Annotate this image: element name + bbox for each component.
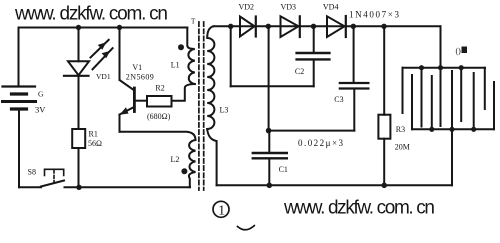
- diode VD4 cathode bar: [345, 16, 347, 37]
- grid finger down 4: [460, 68, 462, 121]
- svg-text:C3: C3: [334, 95, 343, 104]
- squiggle mark: [238, 226, 255, 230]
- node junction LED-top: [76, 25, 81, 30]
- circled figure number 1: [213, 201, 229, 217]
- grid bottom bus dot 1: [429, 127, 434, 132]
- resistor R3 bottom lead: [383, 139, 385, 186]
- svg-text:S8: S8: [28, 168, 36, 177]
- switch S8 blade: [41, 181, 64, 187]
- svg-text:T: T: [191, 18, 196, 26]
- wire base lead: [136, 100, 147, 102]
- wire emitter drop: [119, 115, 121, 132]
- switch S8 plunger dashed: [53, 170, 55, 182]
- wire battery top lead: [18, 28, 20, 86]
- wire L3 bottom lead: [207, 129, 216, 185]
- switch S8 button bracket: [45, 169, 64, 175]
- grid top bus dot 2: [438, 65, 443, 70]
- wire grid feed from rail: [440, 26, 442, 67]
- diode VD3 triangle: [281, 16, 299, 37]
- capacitor C3 top lead: [353, 26, 355, 82]
- transistor V1 emitter arrowhead: [120, 107, 129, 115]
- battery G plate3: [3, 100, 36, 103]
- transistor Q V1 collector diagonal: [120, 80, 135, 91]
- inductor L3 winding: [207, 26, 214, 129]
- wire R2 right to L1 bottom: [172, 84, 195, 101]
- resistor R2: [147, 96, 172, 107]
- capacitor C3 plate2: [340, 87, 369, 89]
- svg-text:V1: V1: [132, 63, 142, 72]
- wire LED anode lead: [78, 28, 80, 62]
- transformer T core dashed line 2: [203, 22, 205, 190]
- electrode grid top bus: [403, 67, 486, 69]
- grid finger up 3 and bottom-bus feed: [451, 71, 453, 185]
- resistor R3 top lead: [383, 26, 385, 114]
- svg-text:2N5609: 2N5609: [126, 73, 154, 82]
- grid finger down 5: [484, 68, 486, 109]
- svg-text:1: 1: [218, 202, 225, 217]
- grid finger up 2: [431, 76, 433, 129]
- LED VD1 cathode bar: [64, 75, 89, 77]
- node junction doubler mid: [266, 128, 272, 134]
- svg-text:VD3: VD3: [281, 3, 297, 12]
- svg-text:R3: R3: [396, 125, 405, 134]
- wire right top rail: [214, 25, 441, 27]
- wire R1 to bottom rail: [78, 148, 80, 187]
- node junction C2 top: [311, 24, 316, 29]
- transistor V1 emitter diagonal: [120, 107, 135, 115]
- wire bottom rail left piece: [19, 186, 41, 188]
- battery G plate4: [12, 107, 27, 110]
- grid bottom bus dot 2: [449, 127, 454, 132]
- svg-text:L2: L2: [171, 155, 180, 164]
- svg-text:VD1: VD1: [96, 72, 111, 81]
- svg-text:(): (): [456, 47, 462, 56]
- diode VD4 triangle: [327, 16, 345, 37]
- node junction C1 bottom: [267, 183, 273, 189]
- svg-text:R2: R2: [155, 83, 164, 92]
- grid finger up 4: [473, 73, 475, 129]
- wire collector drop: [119, 28, 121, 79]
- diode VD2 triangle: [240, 17, 255, 37]
- capacitor C1 top lead: [268, 131, 270, 153]
- svg-text:VD2: VD2: [239, 3, 255, 12]
- node junction VD2-VD3: [266, 24, 271, 29]
- wire bottom rail right piece: [65, 186, 191, 188]
- inductor L2 winding: [189, 140, 196, 187]
- electrode grid bottom bus: [412, 128, 494, 130]
- transformer T core dashed line 1: [198, 22, 200, 190]
- node junction R3 top: [381, 24, 386, 29]
- grid finger down 1: [402, 68, 404, 113]
- wire VD2-VD3 drop: [268, 26, 270, 130]
- svg-text:0.022μ×3: 0.022μ×3: [298, 138, 344, 148]
- capacitor C3 plate1: [340, 82, 369, 84]
- grid finger up 1: [411, 75, 413, 129]
- wire LED to R1: [78, 76, 80, 129]
- wire doubler horizontal to C2: [231, 85, 314, 87]
- svg-text:20M: 20M: [395, 143, 410, 152]
- grid finger down 2: [421, 68, 423, 127]
- L2 phase dot: [181, 168, 187, 174]
- node junction R3 bottom: [381, 183, 387, 189]
- wire left top rail: [19, 27, 188, 29]
- LED VD1 emission arrow 1: [91, 40, 109, 58]
- capacitor C1 bottom lead: [268, 160, 270, 186]
- svg-text:56Ω: 56Ω: [88, 139, 102, 148]
- wire right bottom rail: [217, 184, 452, 186]
- wire doubler left drop: [230, 26, 232, 86]
- node junction C3 top: [351, 24, 356, 29]
- capacitor C1 plate2: [253, 157, 287, 159]
- node A junction: [228, 24, 233, 29]
- diode VD3 cathode bar: [299, 16, 301, 37]
- capacitor C1 plate1: [253, 152, 287, 154]
- svg-text:3V: 3V: [35, 105, 46, 115]
- battery G plate2: [12, 92, 27, 95]
- grid top bus dot 3: [459, 65, 464, 70]
- inductor L1 winding: [187, 28, 195, 85]
- resistor R1: [72, 129, 85, 148]
- svg-text:C1: C1: [279, 165, 288, 174]
- capacitor C2 bottom lead: [313, 61, 315, 87]
- node junction collector-top: [117, 25, 122, 30]
- battery G plate1: [3, 85, 36, 87]
- wire mid horizontal to C3 bottom: [269, 130, 355, 132]
- capacitor C3 bottom lead: [353, 90, 355, 131]
- grid finger up 5: [493, 82, 495, 129]
- grid bottom bus dot 3: [471, 127, 476, 132]
- svg-text:www. dzkfw. com. cn: www. dzkfw. com. cn: [14, 4, 168, 25]
- diode VD2 cathode bar: [255, 17, 257, 37]
- L1 phase dot: [178, 44, 184, 50]
- svg-text:R1: R1: [89, 130, 98, 139]
- LED VD1 emission arrow 2: [93, 48, 113, 69]
- capacitor C2 top lead: [313, 26, 315, 52]
- transistor V1 base bar: [133, 88, 136, 112]
- svg-text:L1: L1: [171, 60, 180, 69]
- grid finger down 3: [440, 68, 442, 126]
- svg-text:C2: C2: [295, 67, 304, 76]
- resistor R3: [378, 115, 390, 139]
- svg-text:(680Ω): (680Ω): [147, 112, 171, 121]
- capacitor C2 plate1: [297, 52, 330, 54]
- svg-text:L3: L3: [220, 106, 229, 115]
- node junction R1-bottom: [76, 185, 81, 190]
- capacitor C2 plate2: [297, 58, 330, 60]
- LED VD1 triangle: [68, 61, 89, 75]
- grid top bus dot 1: [419, 65, 424, 70]
- svg-text:G: G: [38, 89, 44, 98]
- svg-text:VD4: VD4: [323, 3, 339, 12]
- wire battery bottom lead: [18, 111, 20, 188]
- svg-text:www. dzkfw. com. cn: www. dzkfw. com. cn: [283, 198, 435, 219]
- wire emitter to L2: [120, 132, 196, 140]
